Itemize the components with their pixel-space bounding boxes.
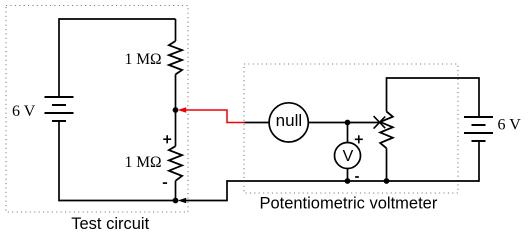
svg-text:Potentiometric voltmeter: Potentiometric voltmeter bbox=[259, 195, 437, 213]
battery B2 (6 V, voltmeter side) bbox=[464, 117, 493, 141]
red probe wire (null detector to node A) bbox=[186, 110, 245, 123]
svg-text:null: null bbox=[276, 111, 302, 130]
black probe arrowhead at node B bbox=[178, 198, 187, 204]
wire: test circuit left (top lead to battery) bbox=[58, 18, 60, 97]
polarity label - (across R2) bbox=[163, 182, 167, 184]
red probe arrowhead at node A bbox=[178, 107, 187, 113]
resistor R1 (1 MΩ upper) bbox=[169, 41, 182, 74]
wire: R2 bottom to node B bbox=[175, 181, 177, 201]
wire: null detector to wiper node bbox=[308, 122, 347, 124]
node A (divider midpoint junction dot) bbox=[173, 107, 179, 113]
dashed enclosure: Potentiometric voltmeter box bbox=[244, 64, 458, 193]
wire: wiper node to potentiometer wiper bbox=[348, 122, 380, 124]
null detector U1 (circle) bbox=[269, 103, 308, 142]
wire: voltmeter bottom rail bbox=[245, 180, 480, 182]
junction dot (potentiometer bottom node) bbox=[384, 178, 390, 184]
node B (test circuit bottom junction dot) bbox=[173, 198, 179, 204]
svg-text:6 V: 6 V bbox=[498, 117, 522, 134]
svg-text:6 V: 6 V bbox=[12, 103, 36, 120]
potentiometer wiper arrow (crossed arrowhead) bbox=[374, 116, 386, 129]
junction dot (wiper node) bbox=[345, 120, 351, 126]
wire: node A to R2 top bbox=[175, 110, 177, 146]
wire: test circuit bottom rail bbox=[59, 200, 176, 202]
wire: red probe continuation to null detector bbox=[245, 122, 270, 124]
svg-text:V: V bbox=[343, 148, 354, 165]
svg-text:1 MΩ: 1 MΩ bbox=[125, 154, 162, 171]
potentiometer R3 (zigzag) bbox=[380, 112, 393, 149]
battery B1 (6 V, test circuit) bbox=[45, 97, 74, 121]
dashed enclosure: Test circuit box bbox=[6, 6, 188, 213]
resistor R2 (1 MΩ lower) bbox=[169, 146, 182, 181]
polarity label + (voltmeter V) bbox=[355, 135, 363, 143]
black probe wire (voltmeter bottom to node B) bbox=[186, 181, 245, 201]
wire: battery B2 bottom lead bbox=[478, 141, 480, 182]
wire: right branch top lead bbox=[175, 19, 177, 41]
voltmeter V (circle) bbox=[335, 143, 361, 169]
wire: potentiometer bottom lead bbox=[386, 148, 388, 181]
junction dot (voltmeter bottom node) bbox=[345, 178, 351, 184]
svg-text:Test circuit: Test circuit bbox=[71, 215, 149, 233]
wire: R1 bottom to node A bbox=[175, 74, 177, 110]
wire: voltmeter V top lead bbox=[347, 123, 349, 143]
wire: test circuit top rail bbox=[59, 18, 176, 20]
polarity label + (across R2) bbox=[163, 135, 171, 143]
polarity label - (voltmeter V) bbox=[355, 176, 359, 178]
wire: potentiometer top lead and top rail to battery B2 bbox=[387, 78, 480, 117]
wire: test circuit left (battery to bottom rail) bbox=[58, 121, 60, 201]
svg-text:1 MΩ: 1 MΩ bbox=[125, 51, 162, 68]
wire: voltmeter V bottom lead bbox=[347, 169, 349, 182]
